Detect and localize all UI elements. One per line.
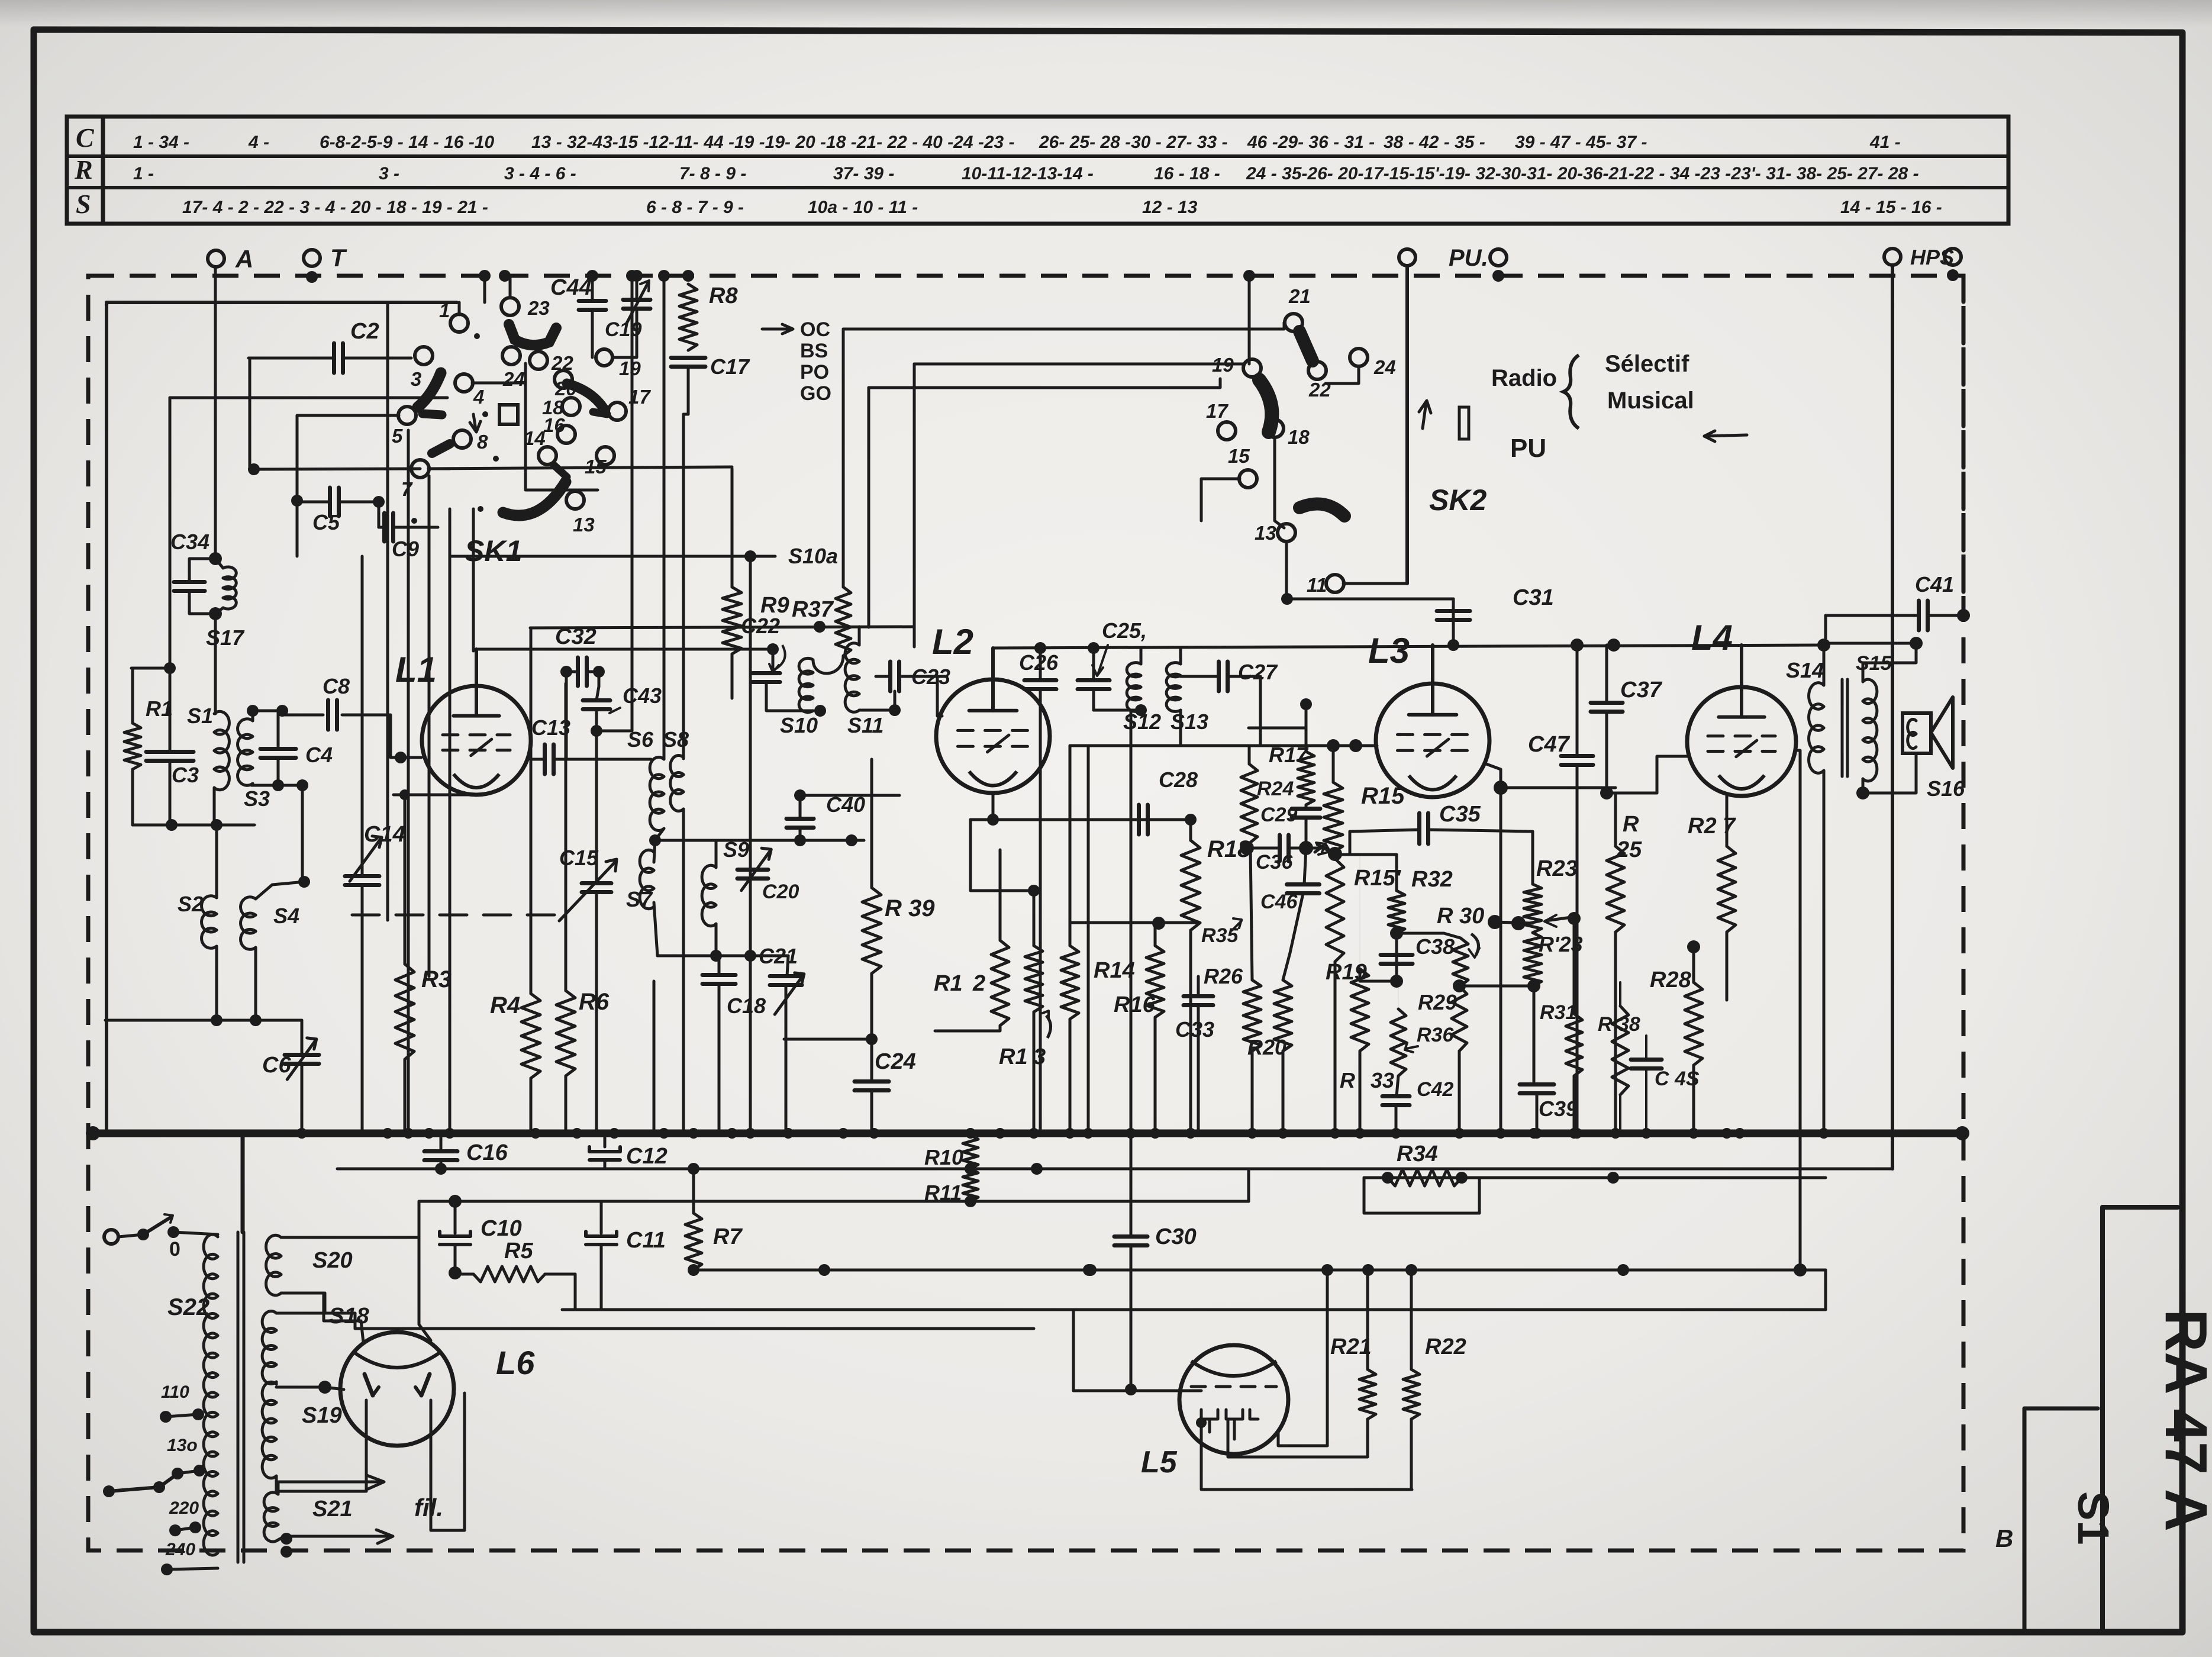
wire L3 right pin <box>1485 763 1501 788</box>
svg-text:C38: C38 <box>1415 934 1455 959</box>
svg-text:41 -: 41 - <box>1869 133 1901 152</box>
coil S17 <box>223 567 236 579</box>
coil S8 <box>670 756 683 777</box>
svg-text:S22: S22 <box>167 1294 209 1320</box>
wire C37 <box>1605 645 1608 702</box>
resistor R3 <box>395 964 414 1059</box>
tube L4 <box>1687 687 1796 796</box>
wire R27 <box>1726 796 1729 846</box>
wire S17 hooks <box>215 559 223 568</box>
wire C19 col <box>636 276 639 299</box>
wire L1 cathode row <box>394 794 478 797</box>
capacitor C42 <box>1382 1094 1410 1098</box>
svg-text:L4: L4 <box>1691 618 1733 657</box>
wire C13 right <box>554 758 651 761</box>
SK1 index square <box>499 405 518 424</box>
svg-text:2: 2 <box>972 971 985 996</box>
svg-text:26- 25- 28 -30 - 27- 33 -: 26- 25- 28 -30 - 27- 33 - <box>1039 133 1228 152</box>
speaker S16 coil box <box>1903 713 1931 753</box>
SK1 stray dots <box>474 333 480 339</box>
svg-text:C21: C21 <box>759 944 798 968</box>
coil S20 <box>266 1235 281 1258</box>
junction S17 bottom <box>209 607 222 620</box>
wire C25 <box>1092 648 1095 680</box>
svg-text:R22: R22 <box>1425 1334 1466 1359</box>
wire R4 <box>530 628 533 994</box>
transformer core feed <box>241 1133 245 1232</box>
wire c7 stub <box>428 468 450 470</box>
junction S15 bottom <box>1856 786 1869 800</box>
arrow R30 <box>1471 934 1479 955</box>
svg-text:R: R <box>1340 1068 1355 1092</box>
svg-text:12 - 13: 12 - 13 <box>1142 198 1198 217</box>
wire C45 <box>1645 1036 1647 1059</box>
resistor R28 <box>1685 982 1702 1065</box>
svg-text:S1: S1 <box>187 704 213 728</box>
wire S9C20 top <box>715 840 718 868</box>
capacitor C4 <box>260 747 296 751</box>
tube L5 <box>1179 1345 1288 1454</box>
wire y2030 right elbow <box>1247 1169 1250 1201</box>
resistor R5 <box>473 1266 545 1282</box>
svg-text:11: 11 <box>1307 574 1327 596</box>
wire R15p down <box>1334 962 1337 1133</box>
svg-text:19: 19 <box>1212 354 1234 376</box>
svg-text:13 - 32-43-15 -12-11- 44 -19 -: 13 - 32-43-15 -12-11- 44 -19 -19- 20 -18… <box>531 133 1015 152</box>
wire R8C17 down <box>687 367 690 414</box>
svg-text:S2: S2 <box>178 892 204 916</box>
wire y2146 <box>694 1269 1826 1272</box>
junction R30R29 <box>1453 979 1466 992</box>
svg-text:S17: S17 <box>206 626 245 650</box>
wire S3 bottom <box>251 784 254 785</box>
wire col1468 down <box>868 388 870 627</box>
capacitor C39 <box>1520 1082 1554 1087</box>
svg-text:R2 7: R2 7 <box>1688 814 1736 839</box>
terminal T <box>304 250 320 266</box>
terminal HPS <box>1884 249 1901 265</box>
wire C23 <box>876 675 890 678</box>
arrow OC <box>762 328 792 331</box>
junction R10 bottom <box>965 1163 976 1175</box>
junction R24 top <box>1300 698 1312 710</box>
svg-text:C46: C46 <box>1260 891 1298 913</box>
resistor R39 <box>862 888 881 973</box>
resistor R29 <box>1452 986 1467 1051</box>
junction C43 bottom <box>591 725 602 737</box>
wire R17 <box>1248 746 1251 764</box>
wire C38 left <box>1360 980 1397 983</box>
coil S13 <box>1166 663 1181 677</box>
wire S12 <box>1140 648 1143 664</box>
wire C47 <box>1576 645 1579 756</box>
svg-text:10a - 10 - 11 -: 10a - 10 - 11 - <box>808 198 918 217</box>
capacitor C5 <box>328 488 332 516</box>
wire L2 grid <box>937 676 947 716</box>
svg-text:C33: C33 <box>1175 1017 1214 1042</box>
wire C36 row <box>1249 847 1279 850</box>
wire S2 down <box>215 946 218 1020</box>
wire R34 row <box>1364 1176 1826 1179</box>
svg-text:C44: C44 <box>550 275 592 300</box>
SK2 index bar <box>1459 407 1469 439</box>
wire contact 11 <box>1343 582 1407 585</box>
svg-text:R37: R37 <box>792 597 834 622</box>
junction C26 top <box>1034 642 1046 654</box>
terminal HPS right <box>1945 249 1961 265</box>
wire x819 stub <box>483 276 486 302</box>
coil S4 <box>241 897 256 917</box>
resistor R23 <box>1524 884 1542 933</box>
wire y1975 <box>337 1168 1892 1171</box>
chassis ground bus <box>92 1130 1962 1137</box>
svg-text:R8: R8 <box>709 283 738 308</box>
resistor R26 <box>1243 980 1261 1051</box>
wire C43 col <box>598 672 601 686</box>
resistor R15 <box>1324 782 1343 852</box>
coil S9 <box>702 865 716 888</box>
svg-text:C24: C24 <box>875 1049 916 1074</box>
wire col1122 <box>663 276 666 759</box>
wire vertical x612 <box>361 556 364 876</box>
wire R14 <box>1069 746 1072 946</box>
junction 13 bottom <box>1281 593 1293 605</box>
wire C4 col <box>277 711 280 749</box>
terminal PU <box>1399 249 1415 266</box>
bus junction dots <box>296 1128 307 1139</box>
tube L2 <box>936 679 1050 793</box>
svg-text:15: 15 <box>1228 445 1250 467</box>
svg-text:S18: S18 <box>329 1304 369 1329</box>
junction y1420a <box>794 834 806 846</box>
junction y2146 a <box>818 1264 830 1276</box>
svg-text:C27: C27 <box>1238 660 1278 684</box>
wire y1444 <box>1335 853 1397 856</box>
svg-text:R: R <box>1623 812 1639 837</box>
capacitor C15 variable <box>582 881 611 885</box>
wire BS long <box>914 363 1243 366</box>
wire C12 <box>604 1133 607 1147</box>
resistor R34 <box>1388 1169 1462 1186</box>
wire S18 bottom <box>275 1382 278 1384</box>
wire R28 <box>1692 947 1695 982</box>
wire x1068 down <box>631 276 634 731</box>
junction y2146 c <box>1794 1263 1807 1276</box>
resistor R37 <box>836 587 851 656</box>
svg-text:17: 17 <box>1206 400 1228 422</box>
wire L6 cathode left <box>276 1400 366 1491</box>
brace radio <box>1563 355 1579 428</box>
junction S18 L6 <box>318 1381 331 1394</box>
svg-text:C12: C12 <box>626 1144 668 1169</box>
wire C34 loop <box>189 559 215 582</box>
svg-text:R1: R1 <box>999 1045 1028 1069</box>
capacitor C18 <box>702 973 736 977</box>
SK2 wiper arc b <box>1259 380 1272 432</box>
svg-text:S21: S21 <box>312 1497 353 1521</box>
svg-text:S20: S20 <box>312 1248 353 1273</box>
junction S3C4 bottom a <box>272 779 284 791</box>
svg-text:R31: R31 <box>1540 1001 1576 1024</box>
dashed drop right <box>1962 276 1966 615</box>
svg-text:S1: S1 <box>2069 1491 2118 1545</box>
svg-text:R29: R29 <box>1418 990 1457 1014</box>
wire contact23 up <box>509 276 512 298</box>
svg-text:L1: L1 <box>395 650 437 689</box>
capacitor C25 variable <box>1078 678 1110 682</box>
junction R34 a <box>1382 1172 1394 1184</box>
wire y1260 <box>1070 744 1249 747</box>
resistor R27 <box>1718 846 1736 932</box>
wire S6-S7 <box>655 828 664 840</box>
svg-text:A: A <box>235 245 253 273</box>
svg-text:25: 25 <box>1616 837 1642 862</box>
resistor R13 <box>1025 946 1043 1012</box>
junction R11 bottom <box>965 1195 976 1207</box>
svg-text:C: C <box>76 122 95 153</box>
junction y1559 <box>1152 917 1165 930</box>
wire y1230 grid <box>1249 727 1305 730</box>
junction C28 right <box>1185 814 1197 826</box>
wire S20 top <box>281 1236 419 1239</box>
svg-text:4 -: 4 - <box>248 133 269 152</box>
junction return b <box>250 1014 262 1026</box>
resistor R20 <box>1274 980 1292 1051</box>
wire C42 <box>1397 1076 1398 1096</box>
wire R24 <box>1305 732 1308 752</box>
wire S7 bottom <box>654 902 716 956</box>
svg-text:14 - 15 - 16 -: 14 - 15 - 16 - <box>1840 198 1942 217</box>
wire contact4 right <box>472 382 525 385</box>
arrow R15 tap <box>1317 844 1329 851</box>
SK1 wiper arc d <box>503 482 566 515</box>
svg-text:14: 14 <box>524 427 546 449</box>
wire R6 <box>565 684 567 991</box>
junction C10 top <box>449 1195 462 1208</box>
wire S9C20 bottom <box>715 924 718 956</box>
SK1 wiper arc b <box>418 373 441 407</box>
wire S3 top <box>251 711 254 721</box>
svg-text:24: 24 <box>502 368 525 390</box>
wire c32 drop <box>565 672 568 759</box>
wire C39 <box>1536 1094 1539 1133</box>
svg-text:C 4S: C 4S <box>1655 1068 1700 1090</box>
capacitor C45 <box>1631 1058 1662 1062</box>
wire R26 <box>1250 848 1252 980</box>
capacitor C41 <box>1917 601 1921 630</box>
resistor R10 <box>963 1135 978 1169</box>
svg-text:C29: C29 <box>1260 804 1297 826</box>
capacitor C6 variable <box>285 1053 319 1057</box>
svg-text:R 30: R 30 <box>1437 904 1484 929</box>
wire x1839 <box>1087 746 1090 1133</box>
svg-text:Sélectif: Sélectif <box>1605 351 1689 377</box>
wire S18 top <box>276 1293 325 1313</box>
wire S3C4 bottom row <box>251 784 302 787</box>
wire to L6 <box>325 1387 344 1390</box>
wire R5 wires <box>455 1273 473 1276</box>
svg-text:S: S <box>76 189 91 219</box>
wire col1155 <box>682 414 685 759</box>
junction C32 a <box>560 666 572 678</box>
junction HPS on dashed line <box>1947 269 1959 281</box>
wire R23 bottom <box>1533 986 1536 1085</box>
wire S2 top <box>215 825 218 898</box>
wire x2111 down <box>1248 276 1251 364</box>
wire C21 <box>787 956 788 976</box>
wire R39 <box>870 759 873 888</box>
svg-text:C30: C30 <box>1155 1224 1197 1249</box>
wire R22 <box>1410 1270 1413 1369</box>
capacitor C9 <box>382 513 386 541</box>
svg-text:Radio: Radio <box>1491 365 1557 391</box>
junction heater d <box>1085 1264 1097 1276</box>
resistor R17 <box>1241 764 1257 843</box>
svg-text:R'23: R'23 <box>1539 932 1583 956</box>
svg-text:3 -: 3 - <box>379 164 399 183</box>
resistor R19 <box>1351 969 1369 1051</box>
svg-text:1 - 34 -: 1 - 34 - <box>133 133 189 152</box>
junction R7 top <box>688 1163 699 1175</box>
svg-text:C9: C9 <box>392 537 419 561</box>
svg-text:C17: C17 <box>710 354 750 379</box>
resistor R32 <box>1388 891 1405 933</box>
svg-text:46 -29- 36 - 31 -: 46 -29- 36 - 31 - <box>1247 133 1375 152</box>
junction L3 pin col <box>1494 781 1508 795</box>
capacitor C46 <box>1287 882 1320 886</box>
coil S19 <box>262 1382 276 1404</box>
wire L2 bottom <box>992 793 995 820</box>
svg-text:18: 18 <box>1288 426 1310 448</box>
capacitor C23 <box>888 662 892 691</box>
capacitor C38 <box>1381 953 1413 957</box>
svg-text:R 38: R 38 <box>1598 1013 1640 1036</box>
junction y2146 b <box>1083 1264 1095 1276</box>
svg-text:24: 24 <box>1373 356 1396 378</box>
svg-text:Musical: Musical <box>1607 388 1694 414</box>
svg-text:21: 21 <box>1288 285 1311 307</box>
junction C38 bottom <box>1390 975 1403 988</box>
capacitor C11 <box>586 1232 617 1236</box>
capacitor C27 <box>1217 662 1221 691</box>
svg-text:C2: C2 <box>350 319 379 344</box>
wire contact1 <box>458 302 461 315</box>
wire L1 plate up <box>475 649 478 686</box>
wire S11C23 bottom <box>859 709 895 712</box>
junction y1097 <box>767 643 779 655</box>
wire R23 <box>1531 831 1534 884</box>
junction heater e <box>1617 1264 1629 1276</box>
capacitor C13 <box>543 744 547 774</box>
svg-text:S13: S13 <box>1171 710 1208 734</box>
wire y2028 <box>418 1201 421 1237</box>
svg-text:BS: BS <box>800 340 828 362</box>
terminal A <box>208 250 224 267</box>
svg-text:C4: C4 <box>305 743 333 767</box>
svg-text:C11: C11 <box>626 1228 666 1253</box>
wire C41 row <box>1826 614 1918 617</box>
wire C24 top row <box>784 1038 872 1041</box>
capacitor C10 <box>440 1232 470 1236</box>
wire contact7 row <box>254 469 420 469</box>
capacitor C2 <box>332 343 336 373</box>
wire R25 <box>1614 793 1617 846</box>
wire y1087 <box>1824 642 1916 645</box>
svg-text:8: 8 <box>477 431 488 453</box>
svg-text:R5: R5 <box>504 1239 533 1263</box>
wire L6 cathode right <box>431 1393 465 1530</box>
wire C16 <box>440 1133 443 1151</box>
wire sk1 drop b <box>428 476 431 976</box>
svg-text:1: 1 <box>439 299 450 321</box>
junction R15 mid <box>1328 847 1342 861</box>
junction S12 bottom <box>1135 704 1147 716</box>
wire A down <box>214 267 217 559</box>
wire y2213 <box>562 1308 1826 1311</box>
junction R23 mid <box>1488 915 1502 929</box>
wire S10 tank <box>772 649 775 673</box>
SK2 wiper arc a <box>1300 331 1313 361</box>
wire L5 cath a <box>1201 1423 1412 1490</box>
junction S11 top <box>814 621 826 633</box>
svg-text:C16: C16 <box>466 1140 508 1165</box>
wire R9 up <box>731 469 734 587</box>
junction C36 a <box>1240 841 1254 855</box>
svg-text:R1: R1 <box>934 971 963 996</box>
resistor R18 <box>1181 840 1200 930</box>
wire C2 left drop <box>249 358 251 469</box>
wire R37 S10a hook <box>813 656 843 673</box>
junction R32 bottom <box>1390 927 1403 940</box>
wire col1545 down <box>913 364 916 647</box>
svg-text:R34: R34 <box>1397 1142 1438 1166</box>
wire y2030 <box>419 1200 1249 1203</box>
svg-text:R24: R24 <box>1257 778 1294 800</box>
wire S1 bottom <box>213 788 216 825</box>
resistor R30 <box>1453 938 1468 986</box>
junction C24 top <box>866 1033 878 1045</box>
junction R23p bottom <box>1527 979 1540 992</box>
junction return a <box>211 1014 223 1026</box>
svg-text:6 - 8 - 7 - 9 -: 6 - 8 - 7 - 9 - <box>646 198 744 217</box>
svg-text:PO: PO <box>800 361 829 383</box>
wire y672 <box>170 396 447 399</box>
junction C30 bottom <box>1130 1366 1131 1368</box>
capacitor C19 variable <box>623 298 650 302</box>
svg-text:S14: S14 <box>1786 658 1824 682</box>
wire y1095 L2toL3L4 <box>993 645 1823 648</box>
wire R38 <box>1619 982 1621 1006</box>
resistor R22 <box>1403 1369 1420 1419</box>
svg-text:17- 4 - 2 - 22 - 3 - 4 - 20 -: 17- 4 - 2 - 22 - 3 - 4 - 20 - 18 - 19 - … <box>182 198 488 217</box>
svg-text:R32: R32 <box>1411 867 1453 892</box>
capacitor C26 <box>1024 678 1056 682</box>
wire C30 <box>1130 711 1133 1236</box>
junction S3C4 bottom b <box>296 779 308 791</box>
wire R12 <box>999 850 1002 940</box>
svg-text:1 -: 1 - <box>133 164 154 183</box>
resistor R31 <box>1566 1014 1582 1076</box>
svg-text:R4: R4 <box>490 992 520 1018</box>
svg-text:R15: R15 <box>1361 783 1405 809</box>
svg-text:SK2: SK2 <box>1429 483 1487 517</box>
wire y1331 <box>1501 786 1616 789</box>
arrow PU <box>1704 435 1747 436</box>
resistor R6 <box>556 991 575 1076</box>
capacitor C47 <box>1561 754 1593 758</box>
resistor R21 <box>1359 1369 1376 1419</box>
svg-text:C14: C14 <box>364 822 405 847</box>
